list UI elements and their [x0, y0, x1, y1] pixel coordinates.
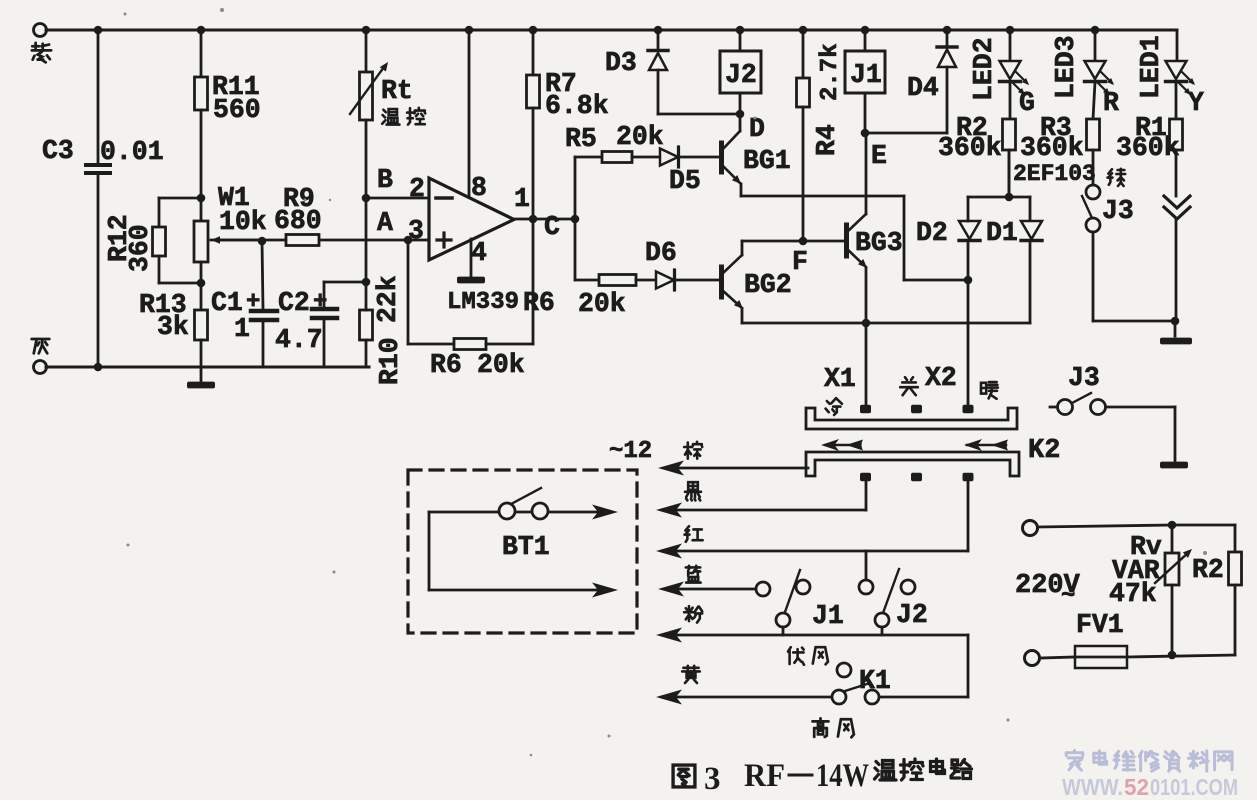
svg-text:14W: 14W: [816, 758, 869, 794]
svg-text:47k: 47k: [1109, 579, 1157, 609]
potentiometer W1 10k: [200, 198, 203, 221]
node R10/C2 junction: [362, 278, 371, 287]
svg-text:360: 360: [125, 224, 155, 272]
label 粉: [684, 606, 702, 622]
chevron symbol below R1: [1164, 196, 1190, 208]
resistor R6 feedback 20k: [454, 339, 486, 350]
relay contact J1: [796, 580, 810, 594]
ground for LED chain: [1174, 321, 1177, 336]
svg-text:1: 1: [234, 314, 250, 344]
svg-text:R2: R2: [1192, 555, 1224, 585]
svg-text:E: E: [871, 141, 887, 171]
svg-text:RF: RF: [744, 758, 785, 794]
wire op-amp pin3 input: [211, 239, 262, 242]
svg-text:10k: 10k: [219, 207, 267, 237]
op-amp minus sign: [436, 196, 452, 200]
svg-text:2EF103: 2EF103: [1013, 161, 1096, 187]
terminal 灰 (gray / ground input): [34, 361, 47, 374]
svg-text:F: F: [792, 247, 808, 277]
diode D5: [660, 149, 678, 166]
label 蓝: [686, 566, 701, 583]
wire R6 to D6: [636, 279, 656, 282]
K2 slider arrows right: [967, 444, 1006, 447]
wire R2 bottom to D2/D1: [1008, 150, 1011, 197]
svg-text:LM339: LM339: [447, 289, 519, 316]
wire D2-D1 tops: [968, 196, 1030, 199]
K2 upper slider bracket: [806, 408, 1017, 429]
feedback wire to output: [486, 343, 533, 346]
svg-text:~: ~: [1061, 583, 1075, 610]
capacitor C1 electrolytic 1uF: [258, 237, 267, 246]
wire D2 node to K2 X2 contact: [967, 280, 970, 405]
svg-text:BG2: BG2: [744, 270, 792, 300]
wire op-amp pin2 input: [366, 197, 429, 200]
resistor R2 mains: [1229, 552, 1242, 585]
relay coil J2 box: [720, 51, 761, 93]
svg-text:~12: ~12: [609, 438, 652, 465]
node Rv top: [1168, 521, 1177, 530]
svg-text:Rt: Rt: [381, 76, 413, 106]
svg-text:+: +: [313, 289, 327, 316]
svg-text:+: +: [246, 289, 260, 316]
node LED ground junction: [1171, 317, 1180, 326]
diode D6: [656, 272, 674, 289]
label 红: [685, 526, 703, 542]
svg-text:22k: 22k: [373, 275, 403, 323]
K2 lower slider bracket: [806, 452, 1019, 476]
resistor R7 6.8k: [532, 30, 535, 75]
terminal 220V live: [1023, 521, 1038, 536]
svg-text:J3: J3: [1068, 363, 1100, 393]
op-amp pin 4 wire: [470, 239, 473, 277]
label 关: [900, 377, 918, 395]
op-amp output wire pin 1: [514, 218, 575, 221]
svg-text:LED1: LED1: [1136, 35, 1166, 99]
terminal 220V neutral: [1025, 651, 1040, 666]
transistor BG3: [865, 133, 868, 214]
node W1 bottom junction: [197, 279, 206, 288]
resistor R6 20k (lower): [599, 275, 636, 286]
svg-text:X1: X1: [824, 364, 856, 394]
svg-text:J1: J1: [812, 601, 844, 631]
ground for J3: [1160, 462, 1188, 469]
node Rv bottom: [1168, 651, 1177, 660]
contact 低风 low-speed: [837, 663, 851, 677]
fuse FV1: [1040, 657, 1075, 658]
K2 upper contacts: [860, 405, 871, 414]
label 暖: [981, 382, 998, 399]
svg-text:D: D: [749, 114, 765, 144]
svg-text:J2: J2: [896, 600, 928, 630]
diode D4: [946, 30, 949, 46]
svg-text:6.8k: 6.8k: [545, 91, 609, 121]
LED3 red: [1094, 30, 1097, 61]
svg-text:0.01: 0.01: [100, 137, 164, 167]
ground below R13: [187, 382, 215, 389]
diode D1: [1029, 197, 1032, 221]
svg-text:BT1: BT1: [502, 532, 550, 562]
wire 红 stub to J1/J2 common circle: [865, 551, 868, 580]
op-amp pin 8 wire: [468, 30, 471, 197]
terminal 紫 (purple supply input): [34, 24, 47, 37]
node W1 top junction: [197, 194, 206, 203]
LED2 green: [1009, 30, 1012, 61]
node B: [362, 194, 371, 203]
op-amp U1 LM339 triangle: [429, 178, 514, 260]
svg-text:Y: Y: [1188, 88, 1204, 118]
label 棕: [684, 442, 702, 459]
wire BG2/BG3 emitter rail: [742, 322, 1030, 325]
svg-text:R6: R6: [430, 350, 462, 380]
svg-text:D2: D2: [916, 218, 948, 248]
node D (J2/BG1 collector): [736, 110, 745, 119]
resistor R4 2.7k: [802, 30, 805, 78]
wire BG2 collector to F: [742, 240, 803, 243]
wire 红 red to K2 X2 lower contact: [656, 544, 682, 559]
thermistor Rt (temp sensor): [365, 30, 368, 72]
wire D6 to BG2 base: [675, 279, 719, 282]
wire node C to R6 branch: [574, 219, 577, 280]
wire node C to R5 branch: [574, 157, 577, 219]
wire F to BG3 base: [803, 240, 844, 243]
wire 粉 pink: [656, 628, 682, 643]
svg-text:1: 1: [514, 184, 530, 214]
svg-text:J2: J2: [725, 60, 757, 90]
svg-text:R5: R5: [565, 124, 597, 154]
wire node E to D4: [865, 132, 947, 135]
svg-text:R4: R4: [812, 124, 842, 156]
node F: [799, 237, 808, 246]
svg-text:R10: R10: [375, 337, 405, 385]
svg-text:K1: K1: [859, 666, 891, 696]
wire J3 to ground node: [1093, 320, 1175, 323]
varistor Rv VAR 47k: [1171, 525, 1174, 553]
label 冷: [826, 398, 842, 415]
wire D3 to node D: [658, 113, 740, 116]
capacitor C2 electrolytic 4.7uF: [323, 282, 326, 307]
svg-text:3k: 3k: [157, 312, 189, 342]
svg-text:J1: J1: [850, 60, 882, 90]
wire 蓝 blue stub: [658, 582, 684, 597]
svg-text:LED2: LED2: [969, 37, 999, 101]
node D2 anode junction: [964, 276, 973, 285]
resistor R2 360k: [1003, 119, 1016, 150]
resistor R5 20k: [602, 152, 632, 163]
wire BG3 emitter to K2 X1 contact: [865, 323, 868, 405]
caption 图3 RF-14W 温控电路: [673, 765, 695, 787]
wire 黑 black to K2 X1 lower contact: [656, 503, 682, 518]
svg-text:560: 560: [213, 95, 261, 125]
wire 220V top: [1038, 525, 1172, 527]
diode D3: [657, 30, 660, 50]
diode D2: [967, 241, 970, 280]
svg-text:C2: C2: [278, 288, 310, 318]
transistor BG1: [719, 143, 724, 172]
svg-text:BG3: BG3: [855, 228, 903, 258]
label 高风: [813, 718, 829, 736]
svg-text:3: 3: [704, 761, 721, 797]
wire bottom ground rail: [46, 366, 369, 369]
node output R7 junction: [529, 215, 538, 224]
svg-text:360k: 360k: [938, 133, 1002, 163]
label 黑: [685, 482, 701, 500]
dashed enclosure BT1 unit: [408, 470, 637, 633]
svg-text:J3: J3: [1102, 196, 1134, 226]
svg-text:680: 680: [274, 206, 322, 236]
label 绿: [1108, 169, 1126, 186]
svg-text:20k: 20k: [616, 122, 664, 152]
watermark 家电维修资料网: [1066, 750, 1083, 770]
transistor BG2: [719, 267, 724, 297]
wire 棕 brown to K2 bracket: [658, 461, 684, 476]
svg-text:20k: 20k: [578, 289, 626, 319]
resistor R11: [200, 30, 203, 77]
svg-text:LED3: LED3: [1051, 35, 1081, 99]
wire BT1 bottom: [429, 589, 599, 592]
svg-text:R6: R6: [523, 288, 555, 318]
svg-text:4: 4: [471, 238, 487, 268]
svg-text:G: G: [1019, 88, 1035, 118]
switch J3 lower: [1050, 406, 1058, 409]
svg-text:360k: 360k: [1116, 133, 1180, 163]
svg-text:4.7: 4.7: [275, 325, 323, 355]
wire 黄 yellow: [656, 690, 682, 705]
svg-text:0101.COM: 0101.COM: [1150, 774, 1238, 800]
wire BG1 emitter run: [741, 195, 904, 198]
K2 slider arrows left: [826, 444, 860, 447]
resistor R3 360k: [1087, 119, 1100, 150]
svg-text:D1: D1: [986, 218, 1018, 248]
node junctions on top rail: [94, 26, 103, 35]
svg-text:D4: D4: [907, 73, 939, 103]
svg-text:D6: D6: [645, 238, 677, 268]
switch BT1: [499, 503, 515, 519]
resistor R1 360k: [1170, 119, 1183, 150]
LED1 yellow: [1176, 30, 1179, 61]
op-amp plus sign: [437, 238, 451, 241]
svg-text:D5: D5: [669, 166, 701, 196]
relay coil J1 box: [845, 51, 885, 93]
ground for op-amp pin4: [457, 277, 485, 284]
svg-text:B: B: [377, 165, 393, 195]
junction dot C3 bottom: [94, 363, 103, 372]
K2 lower contacts: [860, 473, 871, 482]
node C: [571, 215, 580, 224]
wire R5 to D5: [632, 156, 660, 159]
wire BT1 top with switch: [428, 512, 431, 590]
svg-text:A: A: [377, 208, 393, 238]
svg-text:C: C: [544, 212, 560, 242]
label 低风: [788, 647, 804, 665]
feedback wire from pin3: [404, 236, 413, 245]
switch K1 high/low: [832, 690, 846, 704]
svg-text:8: 8: [471, 173, 487, 203]
svg-text:BG1: BG1: [743, 146, 791, 176]
resistor R13: [200, 283, 203, 310]
wire Rt-B-R10 vertical: [365, 198, 368, 282]
svg-text:C3: C3: [42, 136, 74, 166]
switch J3 upper: [1086, 185, 1100, 199]
svg-text:360k: 360k: [1020, 133, 1084, 163]
resistor R10 22k: [360, 310, 373, 340]
wire D5 to BG1 base: [679, 156, 719, 159]
svg-text:FV1: FV1: [1076, 610, 1124, 640]
resistor R9 680: [286, 235, 319, 246]
svg-text:R: R: [1103, 88, 1119, 118]
svg-text:20k: 20k: [477, 350, 525, 380]
svg-text:2: 2: [409, 174, 425, 204]
wire top +12V rail: [46, 29, 1177, 32]
capacitor C3: [97, 30, 100, 163]
node E: [861, 129, 870, 138]
svg-text:WWW.: WWW.: [1062, 774, 1123, 800]
svg-text:2.7k: 2.7k: [817, 43, 844, 101]
label 黄: [682, 666, 700, 683]
svg-text:D3: D3: [605, 48, 637, 78]
svg-text:K2: K2: [1028, 436, 1060, 466]
svg-text:X2: X2: [925, 363, 957, 393]
wire J3 to ground: [1106, 406, 1175, 409]
resistor R12 (parallel with W1): [159, 197, 201, 200]
relay contact J2: [901, 580, 915, 594]
svg-text:52: 52: [1124, 774, 1149, 800]
